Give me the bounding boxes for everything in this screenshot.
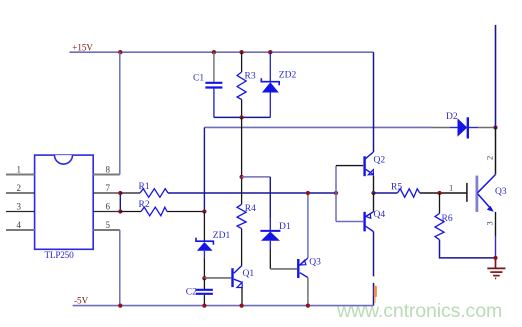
node: emitter / ground bbox=[493, 256, 497, 260]
pin 1 bbox=[6, 174, 35, 176]
wire: node to Q4 emitter bbox=[373, 193, 375, 212]
svg-text:Q3: Q3 bbox=[495, 187, 507, 197]
transistor Q1 bbox=[204, 266, 254, 288]
IGBT Q3 bbox=[467, 175, 507, 212]
pin label 2 bbox=[485, 156, 495, 160]
resistor R6 bbox=[435, 193, 453, 240]
svg-text:Q3: Q3 bbox=[309, 258, 321, 268]
node: ZD1 / Q1 base bbox=[202, 276, 206, 280]
svg-text:R4: R4 bbox=[245, 204, 256, 214]
node: base line / Q3 emitter bbox=[306, 191, 310, 195]
diode D2 bbox=[446, 112, 496, 139]
node: rail / R3 bbox=[239, 50, 243, 54]
zener ZD1 bbox=[196, 212, 230, 279]
wire: C1/R3/ZD2 bottom bus bbox=[214, 116, 270, 118]
node: pin6 tie bbox=[118, 209, 122, 213]
svg-text:www.cntronics.com: www.cntronics.com bbox=[336, 300, 502, 322]
wire: to IGBT gate bbox=[440, 192, 467, 194]
wire: pin8 riser bbox=[119, 52, 121, 174]
svg-text:R6: R6 bbox=[442, 214, 453, 224]
node: emitters / R5 bbox=[371, 191, 375, 195]
node: bases junction bbox=[334, 191, 338, 195]
svg-text:3: 3 bbox=[485, 221, 495, 225]
svg-text:R2: R2 bbox=[139, 200, 150, 210]
svg-text:Q2: Q2 bbox=[374, 156, 386, 166]
resistor R1 bbox=[120, 182, 168, 198]
wire: mid bus to D2 bbox=[204, 126, 431, 128]
svg-text:2: 2 bbox=[17, 183, 22, 193]
orange artifact bbox=[374, 286, 377, 298]
svg-text:1: 1 bbox=[449, 183, 453, 193]
svg-text:C2: C2 bbox=[186, 288, 197, 298]
optocoupler U1 TLP250 bbox=[35, 155, 94, 261]
pin 4 bbox=[6, 229, 35, 231]
wire: bases column bbox=[335, 166, 337, 222]
pin 3 bbox=[6, 211, 35, 213]
wire: stub to D1 bbox=[242, 176, 271, 178]
svg-text:+15V: +15V bbox=[72, 43, 93, 53]
svg-text:1: 1 bbox=[17, 165, 22, 175]
pin 7 bbox=[93, 192, 120, 194]
node: rail / C2 bbox=[202, 303, 206, 307]
svg-text:R3: R3 bbox=[245, 72, 256, 82]
wire: +15V to Q2 collector bbox=[373, 52, 375, 152]
resistor R4 bbox=[237, 117, 256, 228]
wire: R6 bottom to emitter bbox=[440, 240, 496, 258]
svg-text:D2: D2 bbox=[446, 112, 458, 122]
svg-text:5: 5 bbox=[106, 220, 111, 230]
wire: R1 to bases bbox=[168, 192, 336, 194]
capacitor C2 bbox=[186, 278, 213, 305]
node: pin7 tie bbox=[118, 191, 122, 195]
node: rail / pin8 riser bbox=[118, 50, 122, 54]
wire: Q1 emitter to rail bbox=[241, 288, 243, 306]
resistor R3 bbox=[237, 52, 256, 117]
svg-text:8: 8 bbox=[106, 165, 111, 175]
node: gate / R6 bbox=[437, 191, 441, 195]
wire: Q2 emitter to node bbox=[373, 176, 375, 194]
wire: left drop of mid bus bbox=[203, 127, 205, 211]
wire: Q4 base line bbox=[336, 221, 363, 223]
wire: IGBT emitter down bbox=[495, 212, 497, 236]
node: rail / pin5 bbox=[118, 303, 122, 307]
svg-text:Q1: Q1 bbox=[243, 269, 255, 279]
wire: Q3 collector to rail bbox=[307, 278, 309, 306]
svg-text:ZD2: ZD2 bbox=[279, 71, 297, 81]
transistor Q3 (small PNP) bbox=[270, 258, 321, 279]
pin 5 bbox=[93, 229, 120, 231]
svg-text:2: 2 bbox=[485, 156, 495, 160]
svg-text:TLP250: TLP250 bbox=[45, 251, 75, 261]
zener ZD2 bbox=[261, 52, 296, 117]
transistor Q2 bbox=[365, 152, 386, 176]
pin 2 bbox=[6, 192, 35, 194]
node: D2 / collector rail bbox=[493, 125, 497, 129]
resistor R5 bbox=[374, 183, 440, 198]
wire: tie pins 7-6 bbox=[119, 193, 121, 212]
pin 8 bbox=[93, 174, 120, 176]
wire: pin5 drop bbox=[119, 230, 121, 306]
wire: right rail to IGBT collector bbox=[495, 128, 497, 175]
+15V rail bbox=[70, 51, 374, 53]
node: R4 / D1 stub bbox=[239, 175, 243, 179]
node: R2 / ZD1 column bbox=[202, 209, 206, 213]
node: rail / ZD2 bbox=[268, 50, 272, 54]
resistor R2 bbox=[120, 200, 204, 216]
wire: Q3 emitter up bbox=[307, 193, 309, 258]
diode D1 bbox=[260, 218, 290, 269]
svg-text:Q4: Q4 bbox=[374, 210, 386, 220]
svg-text:3: 3 bbox=[17, 202, 22, 212]
wire: Q4 collector down (with gap) bbox=[373, 231, 375, 276]
svg-text:6: 6 bbox=[106, 202, 111, 212]
transistor Q4 bbox=[365, 210, 386, 232]
node: bus / R4 column bbox=[239, 115, 243, 119]
wire: Q1 collector to R4 bbox=[241, 229, 243, 266]
node: rail / Q3 collector bbox=[306, 303, 310, 307]
wire: right rail top bbox=[495, 25, 497, 128]
svg-text:R1: R1 bbox=[139, 182, 150, 192]
svg-text:C1: C1 bbox=[193, 73, 204, 83]
svg-text:D1: D1 bbox=[279, 222, 291, 232]
node: rail / Q1 emitter bbox=[239, 303, 243, 307]
svg-text:-5V: -5V bbox=[74, 296, 89, 306]
svg-text:R5: R5 bbox=[391, 183, 402, 193]
svg-text:4: 4 bbox=[17, 220, 22, 230]
node: rail / C1 bbox=[212, 50, 216, 54]
wire: Q2 base line bbox=[336, 165, 363, 167]
capacitor C1 bbox=[193, 52, 222, 117]
ground bbox=[487, 258, 505, 279]
svg-text:ZD1: ZD1 bbox=[213, 231, 231, 241]
pin label 3 bbox=[485, 221, 495, 225]
-5V rail bbox=[73, 305, 374, 307]
svg-text:7: 7 bbox=[106, 183, 111, 193]
pin 6 bbox=[93, 211, 120, 213]
